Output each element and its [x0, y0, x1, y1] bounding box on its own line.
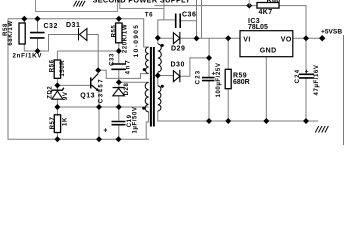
svg-text:D29: D29 — [171, 46, 185, 53]
svg-text:D31: D31 — [66, 22, 80, 29]
svg-text:2nF/1KV: 2nF/1KV — [13, 53, 43, 60]
svg-text:SECOND POWER SUPPLY: SECOND POWER SUPPLY — [93, 0, 191, 5]
svg-text:T6: T6 — [145, 12, 153, 19]
svg-text:GND: GND — [260, 48, 277, 55]
svg-text:R55: R55 — [111, 25, 117, 38]
svg-text:10-0905: 10-0905 — [133, 24, 140, 58]
svg-text:78L05: 78L05 — [248, 24, 268, 31]
svg-text:4n7: 4n7 — [125, 59, 131, 75]
svg-text:47µF/16V: 47µF/16V — [314, 65, 320, 96]
svg-text:ZD2: ZD2 — [47, 86, 53, 99]
svg-text:1K: 1K — [63, 117, 69, 126]
svg-text:D30: D30 — [171, 62, 185, 69]
svg-text:C24: C24 — [295, 69, 301, 84]
svg-text:VI: VI — [243, 36, 250, 43]
svg-text:9V: 9V — [63, 92, 69, 101]
svg-text:C23: C23 — [195, 70, 201, 85]
svg-text:100µF/25V: 100µF/25V — [216, 63, 222, 98]
svg-text:+: + — [305, 69, 309, 76]
svg-text:C36: C36 — [182, 11, 196, 18]
svg-text:150R: 150R — [60, 60, 66, 77]
svg-text:D28: D28 — [124, 83, 130, 96]
svg-text:+: + — [103, 128, 108, 135]
svg-text:+5VSB: +5VSB — [321, 29, 342, 36]
svg-text:Q13: Q13 — [80, 93, 95, 100]
svg-text:C3457: C3457 — [99, 78, 105, 103]
svg-text:4K7: 4K7 — [259, 9, 273, 16]
svg-text:C33: C33 — [109, 53, 115, 66]
svg-text:C32: C32 — [44, 23, 58, 30]
svg-text:1µF/50V: 1µF/50V — [133, 106, 139, 133]
svg-text:VO: VO — [281, 36, 292, 43]
svg-text:680R: 680R — [233, 79, 250, 86]
svg-text:R60: R60 — [267, 0, 281, 5]
svg-text:220K/1W: 220K/1W — [123, 24, 129, 53]
svg-text:R57: R57 — [50, 117, 56, 130]
svg-text:68K/1W: 68K/1W — [8, 20, 14, 45]
svg-text:R56: R56 — [50, 59, 56, 72]
